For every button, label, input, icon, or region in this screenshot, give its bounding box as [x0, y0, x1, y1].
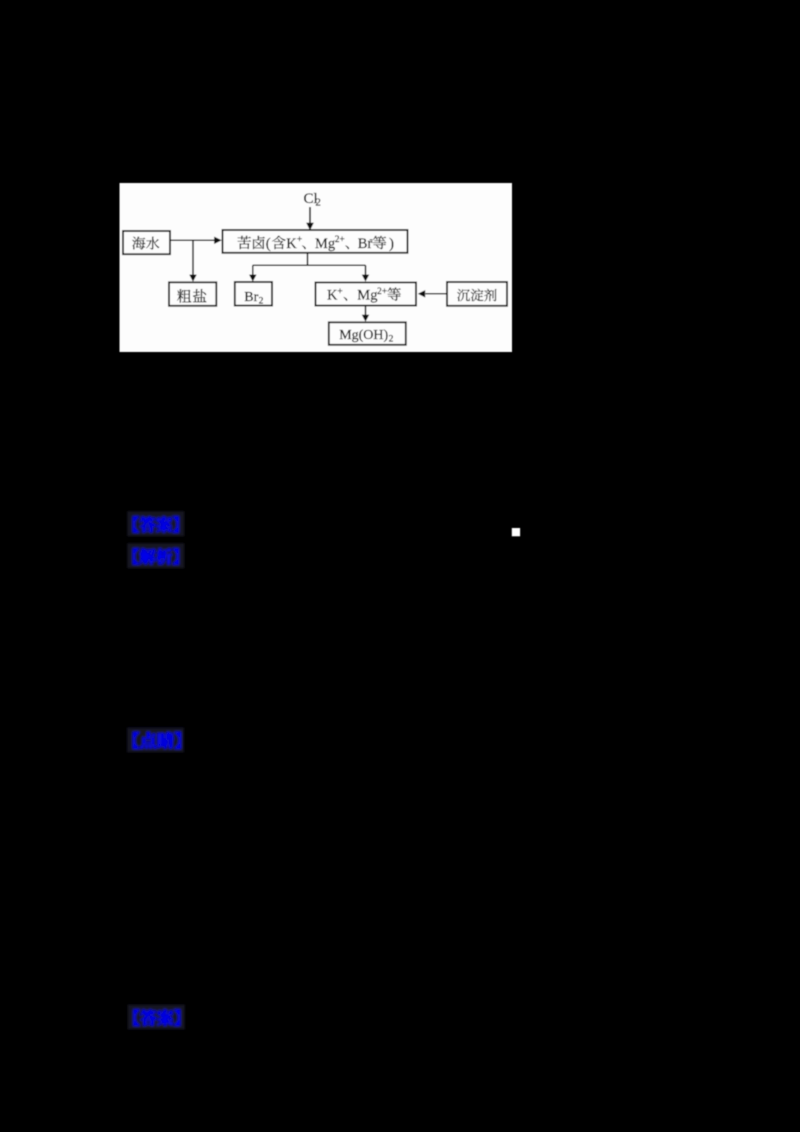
svg-text:K: K: [327, 288, 338, 304]
arrow Cl2 into kulu box: [306, 207, 314, 230]
svg-text:Mg(OH): Mg(OH): [339, 328, 388, 343]
label Cl2: [304, 191, 321, 209]
wire K box down to MgOH2 with arrowhead: [362, 306, 369, 322]
text haishui: [132, 237, 159, 250]
diagram panel (white): [120, 183, 513, 352]
svg-text:): ): [389, 236, 394, 252]
box chendianji (precipitant): [447, 282, 507, 306]
svg-text:2+: 2+: [335, 235, 345, 245]
arrow chendianji to K box: [418, 290, 447, 297]
text kulu contents: [238, 235, 394, 252]
blue label answer 2: [128, 1005, 185, 1030]
svg-text:(: (: [266, 236, 271, 252]
text cuyan: [177, 289, 206, 303]
text MgOH2: [339, 328, 393, 345]
box cuyan (crude salt): [169, 282, 216, 306]
box haishui (seawater): [123, 231, 170, 254]
text chendianji: [457, 289, 496, 302]
svg-text:+: +: [337, 287, 342, 297]
svg-text:Mg: Mg: [357, 288, 377, 304]
svg-text:K: K: [286, 236, 297, 252]
svg-text:2: 2: [315, 197, 321, 209]
wire kulu bottom stub: [307, 253, 309, 266]
svg-text:-: -: [370, 235, 373, 245]
wire branch right down to K box with arrowhead: [362, 265, 369, 281]
text Br2: [244, 290, 263, 307]
wire junction down to cuyan with arrowhead: [189, 240, 196, 281]
svg-text:Mg: Mg: [315, 236, 335, 252]
box kulu (bittern): [223, 230, 408, 253]
blue label key point: [127, 727, 184, 752]
box Br2: [235, 282, 272, 306]
wire branch horizontal: [253, 264, 366, 266]
wire branch left down to Br2 with arrowhead: [249, 265, 256, 281]
svg-text:+: +: [297, 235, 302, 245]
blue label analysis: [127, 543, 184, 568]
box K Mg ions: [316, 282, 417, 305]
svg-text:2+: 2+: [377, 287, 387, 297]
wire haishui to kulu with arrowhead: [170, 237, 222, 244]
blue label answer 1: [127, 511, 184, 536]
svg-text:2: 2: [259, 297, 264, 307]
svg-text:2: 2: [389, 334, 394, 344]
white square bullet: [512, 528, 520, 536]
svg-text:Br: Br: [244, 290, 258, 305]
box MgOH2: [329, 322, 406, 345]
text K Mg ions: [327, 287, 401, 304]
